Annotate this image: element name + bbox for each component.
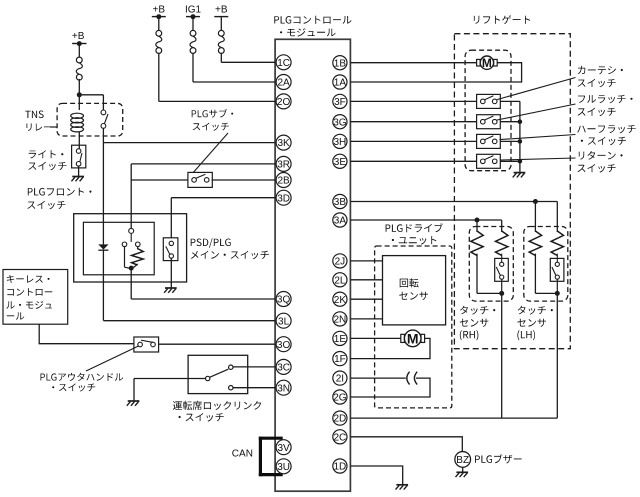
svg-text:3O: 3O [277, 340, 291, 351]
svg-text:1B: 1B [334, 58, 347, 69]
svg-text:CAN: CAN [232, 448, 253, 459]
svg-text:2B: 2B [277, 176, 290, 187]
svg-text:M: M [482, 56, 492, 70]
svg-text:2O: 2O [277, 97, 291, 108]
svg-text:3N: 3N [277, 383, 290, 394]
svg-text:3G: 3G [333, 117, 347, 128]
svg-text:1E: 1E [334, 334, 347, 345]
svg-text:2I: 2I [336, 374, 344, 385]
svg-text:IG1: IG1 [185, 4, 202, 15]
svg-text:BZ: BZ [456, 455, 469, 466]
svg-text:1D: 1D [334, 462, 347, 473]
svg-text:3K: 3K [277, 138, 290, 149]
svg-text:3Q: 3Q [277, 295, 291, 306]
svg-text:3D: 3D [277, 193, 290, 204]
svg-text:2J: 2J [335, 257, 346, 268]
svg-text:1A: 1A [334, 78, 347, 89]
svg-text:2G: 2G [333, 393, 347, 404]
svg-text:3C: 3C [277, 363, 290, 374]
svg-text:2C: 2C [334, 432, 347, 443]
svg-text:3B: 3B [334, 197, 347, 208]
svg-text:3V: 3V [277, 443, 290, 454]
svg-text:+B: +B [153, 4, 166, 15]
svg-text:1F: 1F [334, 354, 346, 365]
svg-text:3U: 3U [277, 462, 290, 473]
svg-text:M: M [407, 330, 419, 346]
svg-text:3L: 3L [278, 316, 290, 327]
svg-text:1C: 1C [277, 58, 290, 69]
svg-text:2K: 2K [334, 295, 347, 306]
svg-text:2L: 2L [334, 275, 346, 286]
svg-text:3R: 3R [277, 160, 290, 171]
svg-text:3E: 3E [334, 157, 347, 168]
svg-text:2A: 2A [277, 78, 290, 89]
svg-text:3A: 3A [334, 216, 347, 227]
svg-text:2D: 2D [334, 414, 347, 425]
svg-text:3H: 3H [334, 137, 347, 148]
svg-text:+B: +B [72, 31, 85, 42]
svg-text:2N: 2N [334, 315, 347, 326]
svg-text:+B: +B [215, 4, 228, 15]
svg-text:3F: 3F [334, 97, 346, 108]
